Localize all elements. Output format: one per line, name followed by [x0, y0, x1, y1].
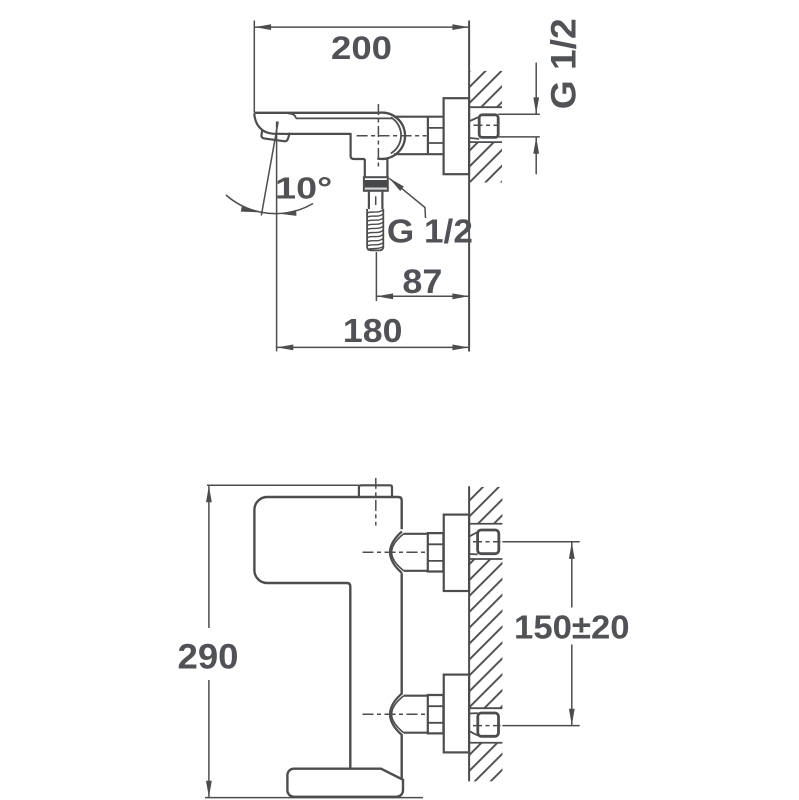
hatch gap boundary lower — [469, 141, 502, 143]
body step to hose — [351, 133, 365, 159]
body horizontal centerline — [357, 135, 427, 137]
base plinth with wedge — [287, 769, 403, 797]
aerator — [261, 130, 289, 142]
upper wall nut — [478, 530, 499, 554]
lower union centerline — [363, 713, 428, 715]
thread helix lines — [367, 210, 383, 250]
hose tube — [369, 191, 383, 209]
lower union cone inner — [392, 696, 404, 733]
dim 200 extension left — [253, 21, 255, 113]
dim 290 top extension — [207, 484, 359, 486]
dim 87 extension left — [375, 252, 377, 301]
svg-text:G 1/2: G 1/2 — [387, 213, 473, 250]
svg-text:290: 290 — [178, 636, 239, 676]
wall hatch lower — [470, 142, 502, 182]
thread bottom cap — [367, 248, 383, 251]
10 deg vertical reference / 180 extension — [276, 122, 278, 352]
wall hatch top band — [470, 487, 503, 524]
body outline — [254, 497, 401, 769]
wall pipe lines — [498, 114, 540, 137]
lower union nut — [428, 695, 444, 733]
lower extension line — [502, 725, 579, 727]
hose upper cylinder — [365, 158, 388, 178]
body vertical centerline — [377, 104, 379, 168]
cylinder bottom line — [394, 153, 443, 155]
upper union cone inner — [392, 534, 404, 571]
dim 200 arrows — [255, 24, 469, 30]
wall hatch upper — [470, 71, 502, 107]
body right edge middle segment — [401, 573, 403, 694]
wall nut collar — [470, 117, 479, 139]
svg-text:150±20: 150±20 — [514, 609, 630, 646]
lower union body lines — [404, 696, 428, 733]
wall hatch bottom band — [470, 743, 503, 782]
G 1/2 leader arrow — [389, 178, 425, 218]
upper union body lines — [404, 534, 428, 571]
dim 180 line — [277, 346, 470, 348]
upper wall nut collar — [470, 532, 478, 554]
hose ring dark band — [365, 180, 387, 188]
lower wall nut — [478, 713, 499, 736]
10 deg slanted line — [261, 122, 278, 216]
spout mouth curve — [254, 113, 290, 134]
lower union cone — [390, 693, 402, 735]
dim 290 bottom extension — [205, 797, 423, 799]
cylinder top line — [394, 116, 443, 118]
lower wall nut collar — [470, 713, 478, 735]
upper union centerline — [363, 551, 428, 553]
upper union cone — [390, 532, 402, 574]
cartridge cap centerline — [375, 478, 377, 526]
cartridge cap — [359, 485, 392, 497]
spout underside — [288, 133, 351, 135]
upper extension line — [502, 541, 579, 543]
svg-text:180: 180 — [343, 312, 403, 349]
svg-text:G 1/2: G 1/2 — [545, 18, 584, 109]
thread sides — [367, 209, 383, 248]
wall nut centerline — [474, 124, 500, 126]
spout top edge — [254, 112, 377, 114]
body dome outer — [377, 113, 405, 159]
dim 87 line — [376, 295, 469, 297]
wall line bottom view — [468, 486, 470, 781]
hatch boundary lines — [469, 524, 502, 743]
dim 290 line — [208, 485, 210, 797]
lower wall nut centerline — [473, 725, 501, 727]
hose ring outline — [364, 177, 388, 191]
wall line (right extension) — [468, 21, 470, 352]
lower wall flange — [444, 675, 469, 753]
wall hatch middle band — [470, 559, 503, 708]
G 1/2 dim lines — [535, 63, 537, 175]
svg-text:10°: 10° — [275, 171, 332, 205]
nut divider vertical — [427, 117, 429, 155]
upper union nut facets — [428, 544, 444, 561]
wall flange — [444, 98, 470, 174]
body right edge lower segment — [401, 734, 403, 778]
svg-text:87: 87 — [402, 263, 442, 301]
upper wall flange — [444, 515, 469, 591]
spout inner top line — [288, 113, 393, 118]
dim 200 line — [254, 26, 469, 28]
upper wall nut centerline — [473, 541, 501, 543]
hatch gap boundary upper — [469, 106, 502, 108]
dim 150+-20 line — [571, 542, 573, 726]
wall nut — [479, 115, 498, 138]
hose ring gray line — [365, 188, 387, 190]
body dome inner arc — [391, 117, 401, 153]
10 deg arc — [226, 195, 313, 214]
lower union nut facets — [428, 706, 444, 723]
nut facet lines — [428, 128, 443, 143]
hose tube centerline — [375, 196, 377, 205]
svg-text:200: 200 — [331, 30, 392, 66]
upper union nut — [428, 533, 444, 571]
